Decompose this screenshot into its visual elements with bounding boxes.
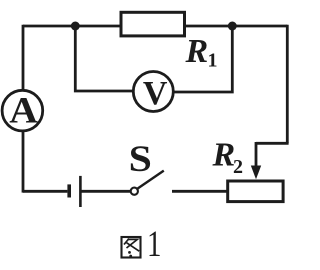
svg-text:V: V bbox=[143, 75, 168, 112]
svg-text:S: S bbox=[129, 138, 152, 179]
ammeter A body bbox=[2, 90, 43, 131]
switch S blade bbox=[138, 171, 164, 189]
svg-text:R: R bbox=[212, 136, 236, 173]
resistor R1 bbox=[121, 12, 185, 36]
svg-text:1: 1 bbox=[147, 224, 161, 265]
wire left-side upper vertical bbox=[22, 25, 25, 91]
wire switch to battery bbox=[82, 190, 131, 193]
voltmeter V body bbox=[133, 72, 173, 112]
wire top-right segment bbox=[185, 25, 288, 28]
svg-text:A: A bbox=[9, 90, 38, 131]
wire jog to rheostat wiper bbox=[256, 142, 289, 145]
wire voltmeter branch (left, from top node down and right) bbox=[75, 26, 133, 91]
wire top-left segment bbox=[23, 25, 121, 28]
svg-text:R: R bbox=[185, 33, 209, 70]
junction node (top-left) bbox=[71, 22, 80, 31]
wire battery to bottom-left corner bbox=[23, 190, 67, 193]
battery positive plate (long) bbox=[79, 176, 82, 207]
wire right-side vertical bbox=[286, 25, 289, 144]
battery negative plate (short) bbox=[67, 184, 71, 197]
wire left-side lower vertical bbox=[22, 131, 25, 193]
wire rheostat to switch bbox=[172, 190, 228, 193]
switch S pivot circle bbox=[131, 188, 138, 195]
svg-text:2: 2 bbox=[233, 156, 243, 178]
caption character 图 (hand-drawn) bbox=[122, 237, 141, 258]
rheostat wiper arrowhead bbox=[251, 166, 261, 180]
rheostat wiper arrow shaft bbox=[255, 142, 258, 168]
junction node (top-right) bbox=[228, 22, 237, 31]
wire voltmeter branch (right, to top node) bbox=[173, 26, 232, 92]
rheostat R2 body bbox=[228, 181, 283, 202]
svg-text:1: 1 bbox=[208, 50, 218, 72]
